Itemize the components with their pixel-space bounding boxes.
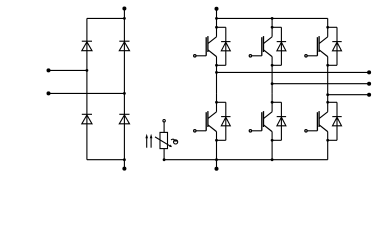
junction: AC1 / left leg bbox=[86, 69, 89, 72]
transistor Q6 with diode D10 (phase 3 low side) bbox=[305, 93, 342, 141]
junction: phase 2 output branch bbox=[271, 82, 274, 85]
wire: phase 3 emitter to bottom rail bbox=[327, 140, 329, 159]
transistor Q4 with diode D8 (phase 1 low side) bbox=[194, 93, 231, 141]
terminal: inverter DC- bbox=[215, 167, 219, 171]
wire: AC input 1 to left leg bbox=[49, 69, 87, 71]
wire: phase 1 leg middle bbox=[216, 65, 218, 93]
diode D2 (upper right) bbox=[119, 41, 129, 51]
terminal: thermistor top bbox=[163, 120, 165, 122]
terminal: output W bbox=[367, 93, 371, 97]
junction: bottom rail / right leg bbox=[123, 158, 126, 161]
terminal: AC input 2 bbox=[47, 91, 51, 95]
junction: phase 1 output branch bbox=[215, 71, 218, 74]
diode D3 (lower left) bbox=[82, 114, 92, 124]
wire: rectifier DC+ terminal stub bbox=[123, 9, 125, 19]
temperature arrow 2 bbox=[150, 134, 153, 148]
transistor Q5 with diode D9 (phase 2 low side) bbox=[249, 93, 286, 141]
transistor Q3 with diode D7 (phase 3 high side) bbox=[305, 18, 342, 66]
diode D1 (upper left) bbox=[82, 41, 92, 51]
junction: thermistor / bottom rail bbox=[163, 158, 166, 161]
terminal: rectifier DC+ bbox=[122, 7, 126, 11]
wire: phase 3 leg middle bbox=[327, 65, 329, 93]
wire: inverter bottom rail bbox=[164, 159, 328, 161]
wire: AC input 2 to right leg bbox=[49, 92, 125, 94]
temperature arrow 1 bbox=[145, 134, 148, 148]
wire: thermistor body to bottom rail bbox=[163, 149, 165, 160]
wire: inverter top rail bbox=[217, 17, 328, 19]
wire: rectifier right leg bbox=[123, 18, 125, 159]
wire: phase 2 leg middle bbox=[271, 65, 273, 93]
thermistor theta symbol bbox=[171, 139, 178, 144]
wire: thermistor terminal to body bbox=[163, 122, 165, 132]
diode D4 (lower right) bbox=[119, 114, 129, 124]
wire: output W bbox=[328, 94, 369, 96]
wire: inverter DC- terminal stub bbox=[216, 160, 218, 169]
junction: bottom rail / phase 1 leg bbox=[215, 158, 218, 161]
junction: phase 3 output branch bbox=[326, 93, 329, 96]
terminal: output U bbox=[367, 70, 371, 74]
wire: rectifier bottom rail bbox=[87, 159, 125, 161]
junction: top rail / phase 1 leg bbox=[215, 17, 218, 20]
junction: bottom rail / phase 2 leg bbox=[271, 158, 274, 161]
terminal: output V bbox=[367, 82, 371, 86]
terminal: inverter DC+ bbox=[215, 7, 219, 11]
transistor Q1 with diode D5 (phase 1 high side) bbox=[194, 18, 231, 66]
thermistor diagonal arrowhead bbox=[169, 145, 172, 148]
terminal: AC input 1 bbox=[47, 68, 51, 72]
wire: rectifier DC- terminal stub bbox=[123, 160, 125, 169]
wire: output U bbox=[217, 71, 370, 73]
transistor Q2 with diode D6 (phase 2 high side) bbox=[249, 18, 286, 66]
junction: top rail / right leg bbox=[123, 17, 126, 20]
wire: phase 1 emitter to bottom rail bbox=[216, 140, 218, 159]
wire: inverter DC+ terminal stub bbox=[216, 9, 218, 19]
junction: AC2 / right leg bbox=[123, 92, 126, 95]
junction: top rail / phase 2 leg bbox=[271, 17, 274, 20]
thermistor RT body bbox=[160, 132, 168, 148]
terminal: rectifier DC- bbox=[122, 167, 126, 171]
wire: rectifier top rail bbox=[87, 17, 125, 19]
wire: rectifier left leg bbox=[86, 18, 88, 159]
wire: output V bbox=[272, 83, 369, 85]
wire: phase 2 emitter to bottom rail bbox=[271, 140, 273, 159]
thermistor diagonal stroke bbox=[155, 137, 171, 146]
